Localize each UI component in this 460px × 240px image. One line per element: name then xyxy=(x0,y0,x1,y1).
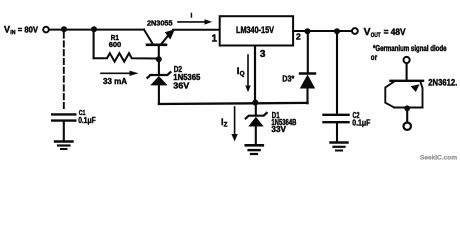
terminal VOUT xyxy=(352,28,358,34)
capacitor C1 xyxy=(52,113,75,115)
wire pin3 lead xyxy=(254,46,256,101)
zener D1 lead xyxy=(255,104,257,115)
svg-text:Z: Z xyxy=(224,121,228,128)
node R1/base/D2 xyxy=(156,56,162,62)
svg-text:3: 3 xyxy=(260,49,266,60)
wire ground bus xyxy=(159,103,308,104)
ground under D1 xyxy=(246,144,263,147)
svg-text:2N3612.: 2N3612. xyxy=(428,77,457,87)
svg-text:SeekIC.com: SeekIC.com xyxy=(420,155,457,162)
IC U1 LM340-15V xyxy=(220,16,293,45)
wire R1 stub xyxy=(93,30,95,58)
svg-text:V: V xyxy=(364,27,371,38)
transistor 2N3612 bottom lead xyxy=(406,109,408,122)
svg-text:LM340-15V: LM340-15V xyxy=(236,25,275,35)
svg-text:or: or xyxy=(371,53,377,62)
wire emitter to regulator xyxy=(173,29,219,31)
svg-text:IN: IN xyxy=(10,30,15,36)
svg-text:1: 1 xyxy=(212,34,218,45)
ground under C1 xyxy=(55,140,73,142)
svg-text:D3*: D3* xyxy=(282,74,295,84)
current arrow 33 mA xyxy=(101,72,130,74)
node 2N3612 bottom junction xyxy=(404,105,410,111)
svg-text:36V: 36V xyxy=(173,82,190,91)
diode D3 xyxy=(300,72,315,74)
transistor Q1 emitter lead with arrow xyxy=(162,35,170,44)
svg-text:I: I xyxy=(191,13,193,20)
svg-text:= 80V: = 80V xyxy=(18,26,39,35)
node D3 top xyxy=(305,28,311,34)
transistor Q1 base bar xyxy=(147,43,166,46)
svg-text:600: 600 xyxy=(109,40,122,49)
wire dashed to C1 xyxy=(63,33,65,112)
resistor R1 xyxy=(94,53,157,61)
transistor Q1 2N3055 collector lead xyxy=(144,30,153,44)
transistor 2N3612 base bar xyxy=(391,80,424,82)
svg-text:2N3055: 2N3055 xyxy=(147,18,173,27)
capacitor C2 xyxy=(324,114,349,116)
svg-text:*Germanium signal diode: *Germanium signal diode xyxy=(373,44,447,53)
transistor 2N3612 emitter path with arrow xyxy=(421,82,423,108)
capacitor C2 lead xyxy=(336,33,338,114)
svg-text:V: V xyxy=(4,25,10,35)
zener D2 xyxy=(147,72,170,78)
svg-text:= 48V: = 48V xyxy=(384,27,406,37)
node C2 top xyxy=(334,28,340,34)
wire output rail xyxy=(293,30,352,32)
svg-text:2: 2 xyxy=(296,32,301,42)
svg-text:Q: Q xyxy=(240,70,245,77)
node ground bus / D1 xyxy=(252,100,258,106)
transistor 2N3612 top terminal xyxy=(404,57,410,63)
svg-text:33 mA: 33 mA xyxy=(103,77,127,86)
wire input rail xyxy=(50,29,145,31)
node input/C1 xyxy=(61,26,67,32)
zener D1 xyxy=(246,113,267,119)
svg-text:OUT: OUT xyxy=(371,33,381,39)
svg-text:0.1μF: 0.1μF xyxy=(352,119,370,128)
node R1 top xyxy=(91,26,97,32)
svg-text:0.1μF: 0.1μF xyxy=(78,116,96,125)
terminal VIN xyxy=(43,27,49,33)
transistor 2N3612 collector path xyxy=(385,82,394,108)
transistor 2N3612 base lead xyxy=(406,64,408,81)
transistor 2N3612 bottom bar xyxy=(394,107,422,109)
transistor 2N3612 bottom terminal xyxy=(404,123,411,130)
wire D3 lead xyxy=(307,33,309,73)
zener D2 lead xyxy=(158,61,160,75)
ground under C2 xyxy=(331,141,348,143)
transistor Q1 base lead xyxy=(158,46,160,59)
svg-text:33V: 33V xyxy=(271,125,286,134)
